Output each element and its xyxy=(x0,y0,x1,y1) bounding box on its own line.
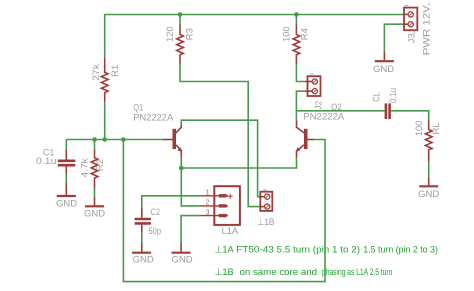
svg-text:2: 2 xyxy=(206,198,210,207)
svg-text:⊥1B: ⊥1B xyxy=(257,217,274,228)
svg-text:CL: CL xyxy=(372,92,383,102)
svg-text:3: 3 xyxy=(206,207,210,216)
svg-text:RL: RL xyxy=(431,122,442,134)
svg-text:on same core and: on same core and xyxy=(240,267,318,277)
svg-text:R1: R1 xyxy=(110,65,121,77)
svg-text:0.1u: 0.1u xyxy=(388,88,399,103)
svg-text:R2: R2 xyxy=(95,159,106,171)
svg-text:1.5 turn (pin 2 to 3): 1.5 turn (pin 2 to 3) xyxy=(363,245,438,255)
svg-text:GND: GND xyxy=(171,255,192,266)
svg-text:⊥1A: ⊥1A xyxy=(214,245,234,255)
svg-text:GND: GND xyxy=(418,189,439,200)
svg-text:100: 100 xyxy=(414,121,425,137)
svg-text:L1A: L1A xyxy=(222,226,239,237)
svg-text:R4: R4 xyxy=(300,28,311,40)
svg-text:phasing as L1A 2.5 turn: phasing as L1A 2.5 turn xyxy=(322,267,392,277)
svg-text:GND: GND xyxy=(373,64,394,75)
svg-text:50p: 50p xyxy=(149,226,162,237)
svg-text:0.1u: 0.1u xyxy=(36,156,57,167)
svg-text:C2: C2 xyxy=(151,207,161,218)
svg-text:4.7k: 4.7k xyxy=(80,158,91,177)
svg-text:R3: R3 xyxy=(185,28,196,40)
svg-text:GND: GND xyxy=(84,209,105,220)
svg-text:PN2222A: PN2222A xyxy=(303,112,345,123)
svg-text:PWR 12V: PWR 12V xyxy=(421,5,432,56)
svg-text:FT50-43 5.5 turn (pin 1 to 2): FT50-43 5.5 turn (pin 1 to 2) xyxy=(236,245,360,255)
svg-text:1: 1 xyxy=(206,188,210,197)
svg-text:J2: J2 xyxy=(314,101,325,110)
svg-text:GND: GND xyxy=(133,254,154,265)
svg-text:GND: GND xyxy=(56,198,77,209)
svg-text:PN2222A: PN2222A xyxy=(133,112,174,123)
svg-text:120: 120 xyxy=(165,26,176,42)
svg-text:27k: 27k xyxy=(91,64,102,81)
svg-text:⊥1B: ⊥1B xyxy=(214,267,233,277)
svg-text:J3: J3 xyxy=(406,33,417,43)
svg-text:100: 100 xyxy=(281,26,292,42)
